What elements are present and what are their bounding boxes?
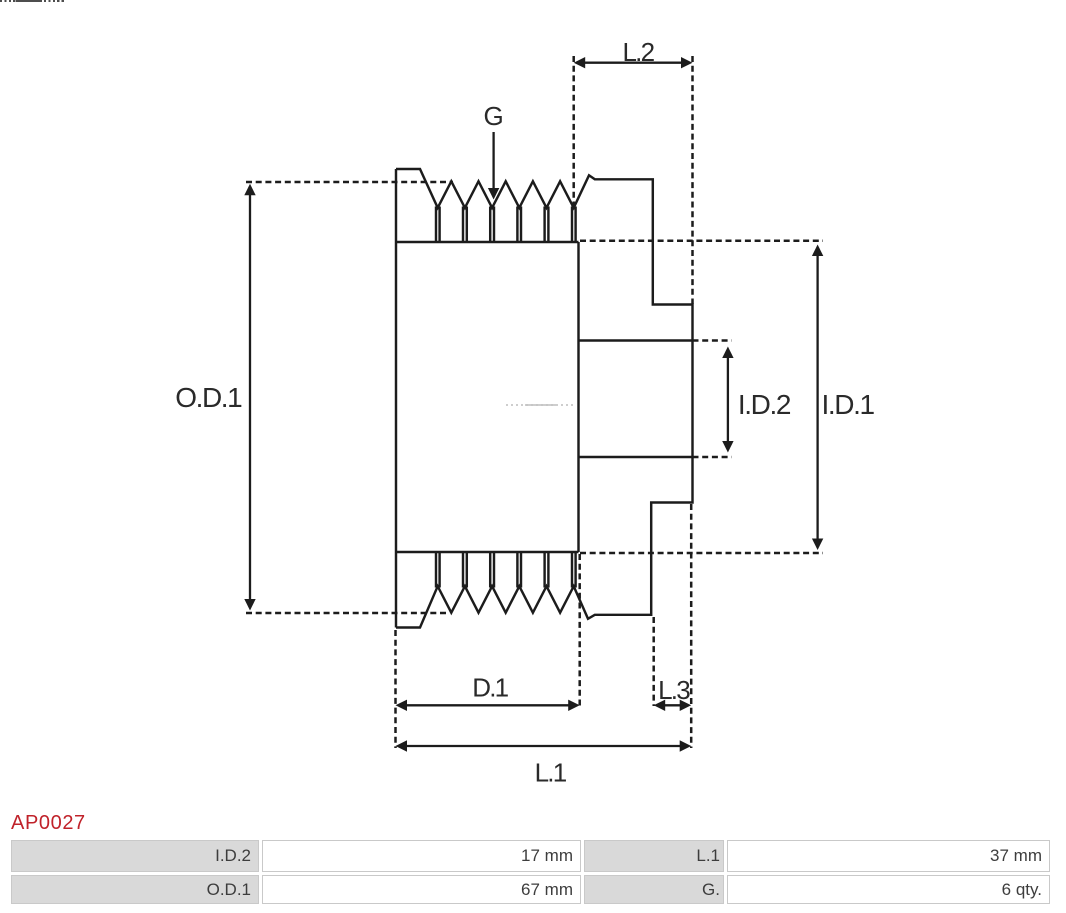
svg-text:D.1: D.1 <box>472 673 508 703</box>
svg-text:L.1: L.1 <box>535 758 567 788</box>
svg-text:L.3: L.3 <box>658 675 690 705</box>
svg-text:O.D.1: O.D.1 <box>175 382 242 413</box>
svg-text:I.D.2: I.D.2 <box>738 389 791 420</box>
svg-text:L.2: L.2 <box>623 37 655 67</box>
svg-text:I.D.1: I.D.1 <box>822 389 875 420</box>
svg-text:G: G <box>483 101 503 131</box>
